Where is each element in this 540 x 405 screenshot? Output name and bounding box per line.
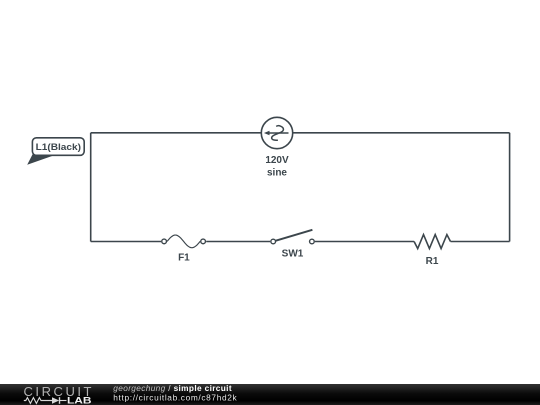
node L1 speech bubble tail	[27, 152, 53, 165]
switch SW1 left terminal	[271, 239, 276, 244]
fuse F1 right terminal	[201, 239, 206, 244]
wire right vertical	[509, 133, 511, 242]
svg-text:L1(Black): L1(Black)	[36, 142, 81, 152]
wire bottom segment switch to resistor	[315, 241, 414, 243]
svg-text:F1: F1	[178, 252, 190, 263]
svg-text:sine: sine	[267, 168, 287, 179]
wire left vertical	[90, 133, 92, 242]
logo resistor zigzag	[24, 398, 52, 404]
fuse F1 left terminal	[162, 239, 167, 244]
fuse F1 sine element	[167, 235, 200, 248]
wire bottom segment fuse to switch	[206, 241, 270, 243]
voltage source V1 circle	[261, 117, 292, 148]
logo diode bar	[59, 397, 61, 404]
svg-text:http://circuitlab.com/c87hd2k: http://circuitlab.com/c87hd2k	[113, 393, 237, 403]
logo diode out line	[60, 400, 67, 402]
logo diode triangle	[52, 397, 59, 404]
wire top horizontal	[91, 132, 510, 134]
node L1 speech bubble box	[32, 138, 84, 156]
switch SW1 right terminal	[310, 239, 315, 244]
svg-text:R1: R1	[426, 256, 439, 267]
svg-text:120V: 120V	[265, 155, 289, 166]
wire bottom segment resistor to right corner	[451, 241, 510, 243]
voltage source V1 arrow shaft	[268, 132, 289, 134]
svg-text:LAB: LAB	[67, 396, 92, 405]
svg-text:SW1: SW1	[282, 248, 304, 259]
voltage source V1 arrowhead	[264, 131, 270, 136]
resistor R1 zigzag	[414, 235, 450, 249]
switch SW1 blade	[276, 230, 313, 241]
voltage source V1 sine squiggle	[272, 126, 284, 141]
wire bottom segment node A (left corner to fuse)	[91, 241, 161, 243]
